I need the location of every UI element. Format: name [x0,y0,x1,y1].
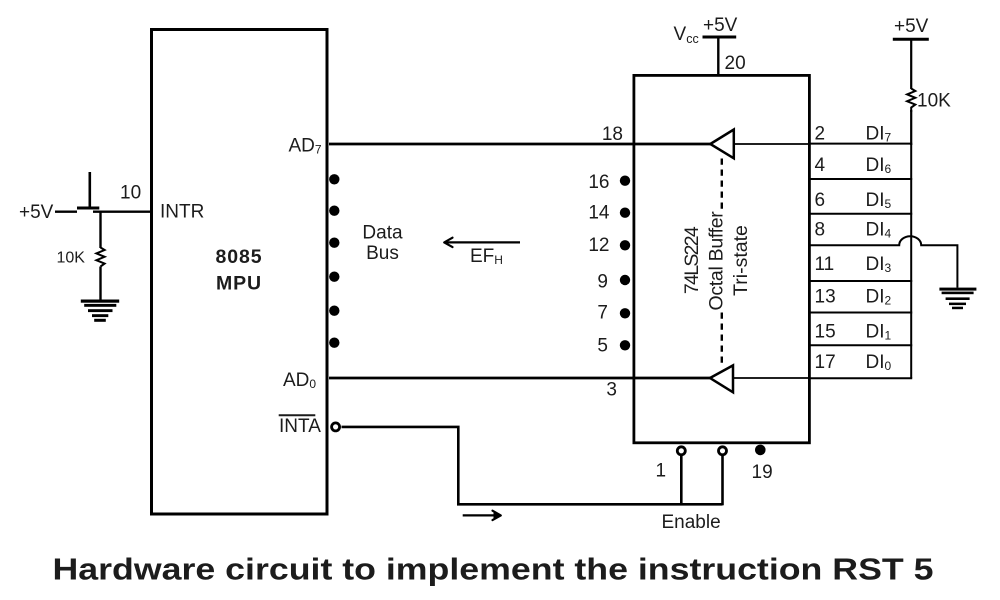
svg-text:10K: 10K [917,91,951,112]
svg-text:DI2: DI2 [866,287,892,308]
wire junction to resistor R1 [99,212,101,248]
EF_H flow arrow [444,238,520,247]
svg-text:Octal Buffer: Octal Buffer [706,211,728,311]
ground (left) [81,300,119,322]
svg-text:2: 2 [815,124,826,145]
svg-text:DI7: DI7 [866,124,892,145]
wire buffer output to pin 17 [733,377,810,379]
dashed tri-state control line [721,159,723,366]
enable pin open circle (second) [719,447,727,455]
svg-text:INTA: INTA [279,416,321,437]
svg-text:5: 5 [597,336,608,357]
svg-text:Tri-state: Tri-state [730,225,752,296]
pull-up bus vertical wire [910,144,912,379]
wire resistor to ground [99,267,101,301]
wire pin 13 / DI2 [810,312,912,314]
svg-text:11: 11 [815,254,835,275]
ground (right, DI4) [939,288,976,310]
wire +5V to switch [55,210,77,212]
svg-text:+5V: +5V [19,202,54,223]
svg-text:17: 17 [815,352,836,373]
wire resistor to bus [910,110,912,145]
data bus dots (buffer side) [620,176,630,351]
svg-text:EFH: EFH [470,246,503,267]
svg-text:Bus: Bus [366,243,399,264]
svg-text:3: 3 [606,380,617,401]
svg-text:7: 7 [597,303,608,324]
svg-text:Hardware circuit to implement: Hardware circuit to implement the instru… [53,553,934,587]
svg-text:4: 4 [815,155,826,176]
svg-text:DI4: DI4 [866,220,892,241]
svg-text:Vcc: Vcc [674,24,699,46]
svg-text:20: 20 [725,53,746,74]
wire pin 4 / DI6 [810,178,912,180]
svg-text:15: 15 [815,322,836,343]
DI ladder row wires (pins 2,4,6,8,11,13,15,17) [810,144,957,379]
wire pin 6 / DI5 [810,213,912,215]
svg-text:MPU: MPU [216,273,262,295]
wire INTA to enable bus [342,427,723,504]
wire switch to INTR pin [93,210,152,212]
svg-text:18: 18 [602,124,623,145]
svg-text:8: 8 [815,220,826,241]
wire second enable pin to enable bus [721,456,724,506]
svg-text:19: 19 [752,462,773,483]
svg-text:INTR: INTR [160,202,204,223]
svg-text:DI3: DI3 [866,254,892,275]
svg-text:6: 6 [815,190,826,211]
8085 MPU block U1 [152,30,328,515]
resistor R1 10K (pull-down) [96,248,104,267]
wire pin 15 / DI1 [810,344,912,346]
svg-text:9: 9 [597,272,608,293]
wire buffer output to pin 2 [734,143,810,145]
svg-text:+5V: +5V [894,16,929,37]
svg-text:10: 10 [120,183,141,204]
INTA open-circle pin [332,423,340,431]
svg-text:1: 1 [656,461,667,482]
svg-text:74LS224: 74LS224 [681,226,703,294]
resistor R2 10K (pull-up) [907,89,915,113]
wire pin 8 / DI4 with hop over pull-up bus [810,236,957,287]
svg-text:DI5: DI5 [866,190,892,211]
wire pin 17 / DI0 [810,377,912,379]
svg-text:12: 12 [588,235,609,256]
+5V supply symbol (Vcc pin 20) [703,15,738,74]
svg-text:Data: Data [362,222,403,243]
wire AD0 data bus to buffer input [329,377,711,380]
enable pin 1 open circle [677,447,685,455]
wire pin 1 to enable bus [680,456,683,505]
74LS224 octal buffer block U2 [634,75,810,442]
svg-text:8085: 8085 [216,246,263,268]
INTA pin label (active low, overline) [279,415,321,437]
svg-text:13: 13 [815,287,836,308]
svg-text:DI0: DI0 [866,352,892,373]
svg-text:Enable: Enable [662,512,721,533]
wire pin 2 / DI7 [810,143,912,145]
svg-text:10K: 10K [57,250,86,267]
chip label Octal Buffer (rotated, masks dashed line) [706,211,733,311]
svg-text:DI6: DI6 [866,155,892,176]
wire AD7 data bus to buffer input [329,143,711,146]
svg-text:16: 16 [588,172,609,193]
Data Bus label [362,222,403,264]
buffer amplifier (top, AD7 path) [710,130,734,159]
enable flow arrow [463,511,501,520]
svg-text:14: 14 [588,202,610,223]
svg-text:+5V: +5V [703,15,738,36]
svg-text:DI1: DI1 [866,322,892,343]
pin 19 dot [755,445,766,456]
push-button switch (RST5 key) [77,172,99,208]
buffer amplifier (bottom, AD0 path) [710,365,733,392]
wire pin 11 / DI3 [810,280,912,282]
data bus dots (MPU side) [329,174,339,348]
+5V supply symbol (right pull-up) [893,16,929,89]
